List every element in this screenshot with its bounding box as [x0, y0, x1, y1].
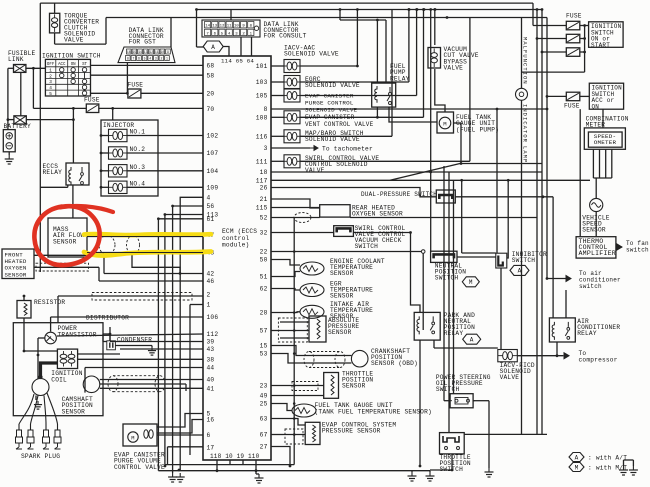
svg-text:OXYGEN SENSOR: OXYGEN SENSOR [352, 211, 403, 218]
svg-text:26: 26 [260, 185, 268, 192]
svg-text:10: 10 [160, 50, 164, 54]
svg-text:32: 32 [260, 230, 268, 237]
svg-text:START: START [591, 42, 610, 49]
svg-text:58: 58 [207, 72, 215, 79]
svg-text:115: 115 [256, 205, 268, 212]
svg-text:22: 22 [260, 249, 268, 256]
svg-text:5: 5 [144, 57, 146, 61]
svg-text:MALFUNCTION: MALFUNCTION [522, 37, 528, 85]
svg-text:DUAL-PRESSURE SWITCH: DUAL-PRESSURE SWITCH [361, 191, 437, 198]
svg-text:15: 15 [260, 343, 268, 350]
svg-text:2: 2 [207, 292, 211, 299]
svg-text:114 65 64: 114 65 64 [221, 58, 254, 65]
svg-text:RESISTOR: RESISTOR [34, 299, 65, 306]
svg-text:M: M [575, 464, 579, 471]
svg-text:SOLENOID VALVE: SOLENOID VALVE [305, 107, 358, 114]
svg-text:104: 104 [207, 168, 219, 175]
svg-text:CONTROL VALVE: CONTROL VALVE [114, 464, 165, 471]
svg-text:67: 67 [260, 432, 268, 439]
svg-text:52: 52 [260, 215, 268, 222]
svg-text:SWITCH: SWITCH [512, 257, 536, 264]
svg-text:4: 4 [49, 86, 52, 91]
svg-text:RELAY: RELAY [43, 169, 63, 176]
svg-text:PURGE CONTROL: PURGE CONTROL [305, 100, 354, 107]
svg-text:M: M [469, 279, 473, 286]
svg-text:46: 46 [207, 278, 215, 285]
svg-text:NO.2: NO.2 [130, 146, 146, 153]
svg-text:117: 117 [256, 178, 268, 185]
svg-text:To tachometer: To tachometer [322, 145, 373, 152]
svg-text:SENSOR: SENSOR [53, 238, 77, 245]
svg-text:118 10 19 110: 118 10 19 110 [210, 453, 260, 460]
svg-text:112: 112 [207, 331, 219, 338]
svg-text:7: 7 [132, 57, 134, 61]
svg-text:FUSE: FUSE [564, 103, 580, 110]
svg-text:OMETER: OMETER [594, 139, 617, 146]
svg-text:49: 49 [260, 393, 268, 400]
svg-text:1: 1 [166, 57, 168, 61]
svg-text:AMPLIFIER: AMPLIFIER [579, 250, 616, 257]
svg-text:2: 2 [49, 74, 52, 79]
svg-text:103: 103 [256, 79, 268, 86]
svg-text:FUSE: FUSE [128, 82, 144, 89]
svg-text:: with A/T: : with A/T [588, 455, 627, 462]
svg-text:62: 62 [260, 286, 268, 293]
svg-text:SENSOR: SENSOR [62, 408, 86, 415]
svg-text:9: 9 [167, 50, 169, 54]
svg-text:A: A [470, 337, 474, 344]
svg-text:102: 102 [207, 133, 219, 140]
svg-text:42: 42 [207, 271, 215, 278]
svg-text:INDICATOR: INDICATOR [522, 104, 528, 143]
svg-text:70: 70 [207, 106, 215, 113]
svg-text:10: 10 [234, 25, 239, 29]
svg-text:105: 105 [256, 93, 268, 100]
svg-text:SOLENOID VALVE: SOLENOID VALVE [305, 136, 360, 143]
svg-text:4: 4 [149, 57, 151, 61]
svg-text:3: 3 [155, 57, 157, 61]
svg-text:ST: ST [82, 63, 87, 67]
svg-text:FUSE: FUSE [566, 13, 582, 20]
svg-text:23: 23 [260, 383, 268, 390]
svg-text:M: M [131, 435, 134, 441]
svg-text:38: 38 [207, 357, 215, 364]
svg-text:SOLENOID VALVE: SOLENOID VALVE [305, 82, 360, 89]
svg-text:12: 12 [220, 25, 225, 29]
svg-text:116: 116 [256, 134, 268, 141]
svg-text:17: 17 [207, 445, 215, 452]
svg-text:NO.3: NO.3 [130, 164, 146, 171]
svg-text:57: 57 [260, 328, 268, 335]
svg-text:8: 8 [127, 57, 129, 61]
svg-text:SENSOR: SENSOR [330, 293, 354, 300]
svg-text:109: 109 [207, 185, 219, 192]
svg-text:EVAP CANISTER: EVAP CANISTER [305, 93, 354, 100]
svg-text:101: 101 [256, 63, 268, 70]
svg-text:14: 14 [138, 50, 142, 54]
svg-text:SOLENOID VALVE: SOLENOID VALVE [284, 51, 339, 58]
svg-text:21: 21 [260, 196, 268, 203]
svg-text:107: 107 [207, 150, 219, 157]
svg-text:68: 68 [207, 63, 215, 70]
svg-text:13: 13 [212, 25, 217, 29]
svg-text:27: 27 [260, 444, 268, 451]
svg-text:11: 11 [227, 25, 232, 29]
svg-text:VALVE: VALVE [305, 167, 325, 174]
svg-text:11: 11 [155, 50, 159, 54]
svg-text:1: 1 [207, 302, 211, 309]
svg-text:3: 3 [264, 145, 268, 152]
svg-text:ON: ON [71, 63, 76, 67]
svg-text:module): module) [222, 242, 249, 249]
svg-text:16: 16 [127, 50, 131, 54]
svg-text:40: 40 [207, 377, 215, 384]
svg-text:SPARK PLUG: SPARK PLUG [21, 453, 60, 460]
svg-text:VALVE: VALVE [444, 65, 464, 72]
svg-text:LAMP: LAMP [522, 146, 528, 163]
svg-text:43: 43 [207, 346, 215, 353]
svg-text:13: 13 [144, 50, 148, 54]
svg-text:NO.4: NO.4 [130, 181, 146, 188]
svg-text:44: 44 [207, 365, 215, 372]
svg-text:NO.1: NO.1 [130, 129, 146, 136]
svg-text:VALVE: VALVE [500, 374, 520, 381]
svg-text:50: 50 [260, 257, 268, 264]
svg-text:16: 16 [207, 417, 215, 424]
svg-text:SENSOR: SENSOR [328, 329, 352, 336]
svg-text:111: 111 [256, 159, 268, 166]
svg-text:SENSOR: SENSOR [342, 383, 366, 390]
svg-text:5: 5 [49, 92, 52, 97]
svg-text:SWITCH: SWITCH [435, 275, 459, 282]
svg-text:compressor: compressor [579, 356, 618, 363]
svg-text:ACC: ACC [58, 63, 66, 67]
svg-text:(FUEL PUMP): (FUEL PUMP) [456, 126, 499, 133]
svg-text:FUSE: FUSE [84, 97, 100, 104]
svg-text:8: 8 [264, 106, 268, 113]
svg-text:108: 108 [256, 115, 268, 122]
svg-text:FOR GST: FOR GST [129, 39, 156, 46]
svg-text:14: 14 [205, 25, 210, 29]
svg-text:A: A [211, 44, 215, 51]
svg-text:SENSOR: SENSOR [330, 270, 354, 277]
svg-text:12: 12 [149, 50, 153, 54]
svg-text:39: 39 [207, 339, 215, 346]
svg-text:6: 6 [138, 57, 140, 61]
svg-text:SENSOR: SENSOR [582, 227, 606, 234]
svg-text:6: 6 [207, 432, 211, 439]
svg-text:DISTRIBUTOR: DISTRIBUTOR [86, 315, 129, 322]
svg-text:15: 15 [132, 50, 136, 54]
svg-text:CONDENSER: CONDENSER [117, 337, 152, 344]
svg-text:2: 2 [160, 57, 162, 61]
svg-text:SWITCH: SWITCH [355, 243, 379, 250]
svg-text:VENT CONTROL VALVE: VENT CONTROL VALVE [305, 121, 374, 128]
svg-text:61: 61 [207, 216, 215, 223]
svg-text:20: 20 [207, 91, 215, 98]
svg-text:RELAY: RELAY [390, 75, 410, 82]
svg-text:41: 41 [207, 386, 215, 393]
svg-text:28: 28 [260, 310, 268, 317]
svg-text:VALVE: VALVE [64, 37, 84, 44]
svg-text:63: 63 [260, 416, 268, 423]
svg-text:A: A [575, 454, 579, 461]
svg-text:LINK: LINK [8, 56, 24, 63]
svg-text:SENSOR: SENSOR [5, 271, 27, 278]
svg-text:PRESSURE SENSOR: PRESSURE SENSOR [322, 428, 381, 435]
svg-text:51: 51 [260, 274, 268, 281]
svg-text:M: M [443, 121, 447, 128]
svg-text:EVAP CANISTER: EVAP CANISTER [305, 114, 355, 121]
svg-text:(TANK FUEL TEMPERATURE SENSOR): (TANK FUEL TEMPERATURE SENSOR) [315, 408, 432, 415]
svg-text:25: 25 [260, 401, 268, 408]
svg-text:53: 53 [260, 351, 268, 358]
svg-text:switch: switch [579, 283, 602, 290]
svg-text:18: 18 [260, 169, 268, 176]
svg-text:SENSOR (OBD): SENSOR (OBD) [371, 360, 418, 367]
svg-text:FOR CONSULT: FOR CONSULT [264, 33, 307, 40]
svg-text:IGNITION SWITCH: IGNITION SWITCH [42, 53, 101, 60]
svg-text:56: 56 [207, 203, 215, 210]
svg-text:4: 4 [207, 195, 211, 202]
svg-text:RELAY: RELAY [577, 330, 597, 337]
svg-text:ON: ON [592, 103, 600, 110]
svg-text:switch: switch [626, 246, 649, 253]
svg-text:COIL: COIL [51, 376, 67, 383]
svg-text:SWITCH: SWITCH [436, 386, 460, 393]
svg-text:106: 106 [207, 314, 219, 321]
svg-text:3: 3 [49, 80, 52, 85]
svg-text:OFF: OFF [47, 63, 55, 67]
svg-text:1: 1 [49, 69, 52, 74]
